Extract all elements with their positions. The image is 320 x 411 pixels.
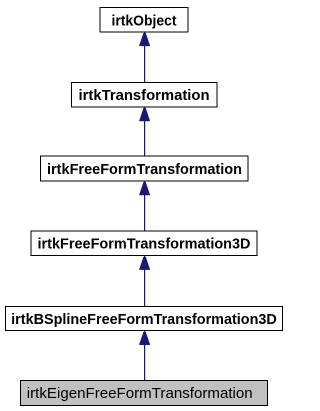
svg-text:irtkBSplineFreeFormTransformat: irtkBSplineFreeFormTransformation3D [11,312,277,328]
class box irtkFreeFormTransformation3D [31,231,257,256]
class box irtkBSplineFreeFormTransformation3D [6,306,283,330]
class box irtkEigenFreeFormTransformation (current class, gray) [21,380,268,405]
inheritance edge irtkFreeFormTransformation3D -> irtkFreeFormTransformation [139,182,150,231]
svg-text:irtkEigenFreeFormTransformatio: irtkEigenFreeFormTransformation [27,385,253,402]
class box irtkObject [100,8,188,32]
svg-text:irtkFreeFormTransformation: irtkFreeFormTransformation [47,162,242,178]
inheritance edge irtkFreeFormTransformation -> irtkTransformation [139,108,150,157]
class box irtkFreeFormTransformation [41,156,249,181]
inheritance edge irtkTransformation -> irtkObject [139,32,150,82]
svg-text:irtkFreeFormTransformation3D: irtkFreeFormTransformation3D [38,237,251,253]
inheritance edge irtkEigenFreeFormTransformation -> irtkBSplineFreeFormTransformation3D [139,331,150,380]
svg-text:irtkObject: irtkObject [112,13,177,29]
inheritance edge irtkBSplineFreeFormTransformation3D -> irtkFreeFormTransformation3D [139,256,150,306]
class box irtkTransformation [72,82,218,107]
svg-text:irtkTransformation: irtkTransformation [79,88,210,104]
